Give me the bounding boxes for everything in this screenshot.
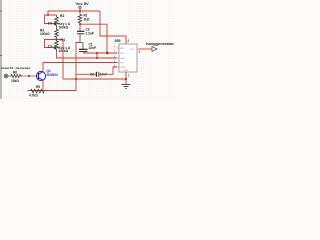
- resistor R1: [78, 13, 90, 23]
- wire emitter row to ground branch: [28, 90, 77, 92]
- wire C3 bottom to left vertical: [76, 43, 80, 91]
- sheet border left edge: [0, 0, 2, 99]
- pin numbers U1 left: [114, 46, 116, 68]
- svg-text:OUT: OUT: [130, 49, 135, 51]
- svg-text:8: 8: [128, 39, 130, 43]
- svg-text:THR: THR: [120, 58, 125, 60]
- svg-text:1%: 1%: [48, 22, 53, 26]
- op-amp U1 555 timer box: [115, 39, 141, 78]
- wire Vcc stem: [79, 9, 81, 14]
- wire Vcc rail: [48, 11, 100, 15]
- junction DIS link top: [96, 52, 98, 54]
- svg-text:3: 3: [139, 50, 141, 54]
- svg-text:Vcc 5V: Vcc 5V: [76, 1, 89, 6]
- svg-text:10kΩ: 10kΩ: [11, 79, 19, 83]
- potentiometer R4 loop wire: [45, 40, 57, 48]
- svg-text:RST: RST: [120, 48, 125, 50]
- svg-text:C2: C2: [90, 72, 94, 76]
- wire R3 bottom node: [57, 39, 64, 40]
- wire Q1 emitter down: [42, 80, 44, 90]
- resistor R3: [40, 28, 58, 39]
- potentiometer R2: [48, 14, 71, 29]
- wire R1 bottom junction: [79, 23, 81, 28]
- pin labels U1: [120, 48, 135, 72]
- ground: [122, 85, 131, 89]
- junction at DIS corner: [106, 52, 108, 54]
- svg-text:22nF: 22nF: [89, 46, 96, 50]
- junction base wire: [28, 75, 30, 77]
- capacitor C1: [79, 42, 96, 53]
- svg-text:100kΩ: 100kΩ: [59, 25, 69, 29]
- wire C2 to CON pin: [99, 67, 117, 74]
- wire C1 top stem: [76, 42, 83, 44]
- svg-text:CON: CON: [120, 67, 125, 69]
- svg-text:GND: GND: [123, 70, 128, 72]
- resistor R6: [10, 71, 22, 83]
- svg-text:lezer10_bemenet: lezer10_bemenet: [2, 66, 31, 70]
- capacitor C2: [76, 72, 107, 77]
- capacitor C3: [77, 28, 94, 43]
- wire GND pin down: [125, 72, 127, 84]
- wire TRI row from Q1 collector: [43, 63, 117, 72]
- wire DIS row from C1: [83, 52, 117, 54]
- svg-text:DIS: DIS: [120, 53, 124, 55]
- wire OUT to connector: [139, 48, 152, 50]
- junction at Vcc rail: [79, 10, 81, 12]
- wire Vcc to pin 8: [100, 11, 126, 44]
- svg-text:2N3904: 2N3904: [47, 73, 58, 77]
- svg-text:555: 555: [115, 39, 121, 43]
- svg-text:TRI: TRI: [120, 62, 124, 64]
- wire ground rail: [63, 78, 126, 80]
- junction ground rail at C3 branch: [75, 78, 77, 80]
- svg-text:R2: R2: [60, 14, 64, 18]
- potentiometer R4: [48, 38, 71, 53]
- svg-text:R5: R5: [36, 85, 40, 89]
- wire mid node down to ground rail: [62, 40, 64, 80]
- transistor Q1: [36, 71, 45, 80]
- svg-text:1%: 1%: [48, 45, 53, 49]
- junction R1/C3: [79, 23, 81, 25]
- potentiometer R2 loop wire: [45, 15, 57, 24]
- svg-text:1kΩ: 1kΩ: [84, 17, 91, 21]
- resistor R5: [29, 85, 44, 97]
- svg-text:100kΩ: 100kΩ: [59, 49, 69, 53]
- node input terminal: [4, 74, 10, 78]
- wire R6 to Q1 base: [22, 75, 39, 77]
- svg-text:4.7kΩ: 4.7kΩ: [29, 93, 38, 97]
- junction THR link bottom: [96, 57, 98, 59]
- node hanggenerator off-page connector: [146, 42, 175, 51]
- wire R1 node to DIS pin: [80, 24, 117, 53]
- power Vcc symbol: [79, 6, 82, 9]
- svg-text:hanggenerator: hanggenerator: [146, 42, 175, 46]
- svg-text:2.2uF: 2.2uF: [86, 32, 94, 36]
- junction ground rail to GND pin: [125, 78, 127, 80]
- svg-text:R6: R6: [13, 71, 17, 75]
- junction Vcc drop to pot loop: [47, 14, 49, 16]
- wire DIS-THR link: [96, 53, 98, 58]
- junction R3 bottom: [56, 39, 58, 41]
- wire pot R4 bottom down to THR row: [57, 52, 118, 58]
- svg-text:100kΩ: 100kΩ: [40, 32, 50, 36]
- pin leads U1: [117, 48, 139, 67]
- svg-text:1: 1: [128, 74, 130, 78]
